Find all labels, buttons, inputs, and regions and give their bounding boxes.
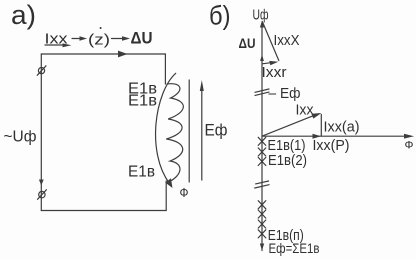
svg-text:Е1в: Е1в — [128, 163, 155, 180]
svg-text:ΔU: ΔU — [131, 30, 153, 48]
reactive component arrowhead Ixx(Р) — [313, 134, 322, 139]
turn tick × b1 — [258, 201, 266, 209]
svg-text:ΔU: ΔU — [239, 35, 256, 51]
bottom terminal — [39, 191, 45, 197]
svg-text:– Еф: – Еф — [269, 85, 301, 102]
svg-text:а): а) — [11, 0, 36, 30]
left wire — [40, 54, 42, 211]
ΔU arrowhead on axis — [260, 55, 264, 62]
wire to winding top — [164, 54, 166, 84]
axis break tick 1 — [255, 89, 269, 92]
arrow from impedance — [112, 38, 124, 40]
winding turns (5 bumps) — [166, 84, 183, 182]
svg-text:Ixx(Р): Ixx(Р) — [313, 137, 350, 154]
svg-text:Ixx(а): Ixx(а) — [324, 119, 360, 136]
svg-text:Е1в(2): Е1в(2) — [268, 152, 307, 169]
svg-text:Uф: Uф — [253, 7, 269, 24]
component arrow Ixxr — [262, 63, 271, 64]
svg-text:~Uф: ~Uф — [4, 129, 37, 146]
svg-text:Ф: Ф — [180, 185, 189, 200]
top wire — [41, 53, 165, 55]
wire from winding bottom — [165, 181, 167, 211]
core line — [188, 80, 190, 182]
turn tick × b3 — [258, 220, 266, 228]
turn tick × a2 — [258, 148, 266, 156]
arrow to impedance — [72, 38, 81, 40]
svg-text:Еф: Еф — [205, 121, 228, 140]
axis break tick 2 — [256, 181, 269, 184]
turn tick × b4 — [258, 230, 266, 238]
Ф axis — [262, 135, 407, 137]
EMF arrow Еф — [201, 90, 203, 180]
top terminal — [38, 68, 44, 74]
turn tick × b2 — [258, 210, 266, 218]
svg-text:Е1в: Е1в — [128, 93, 157, 110]
current arrowhead into bottom terminal — [39, 180, 44, 186]
active component line Ixx(а) — [320, 115, 322, 137]
svg-text:Еф=ΣЕ1в: Еф=ΣЕ1в — [269, 240, 320, 256]
turn tick × a1 — [258, 137, 266, 145]
svg-text:IxxX: IxxX — [274, 32, 300, 49]
sum EMF arrowhead (down) — [260, 244, 264, 251]
svg-text:Ixxr: Ixxr — [262, 64, 287, 81]
component line IxxX — [262, 22, 279, 61]
flux line Ф — [156, 73, 176, 183]
phasor Ixx — [262, 116, 313, 136]
svg-text:б): б) — [209, 1, 231, 31]
svg-text:Ф: Ф — [405, 140, 414, 152]
svg-text:Ixx: Ixx — [296, 102, 314, 119]
vertical axis Uф — [261, 25, 263, 251]
svg-text:(z): (z) — [88, 31, 110, 48]
turn tick × a3 — [258, 157, 266, 165]
phasor underline arrow under Ixx — [45, 44, 66, 46]
bottom wire — [41, 210, 166, 212]
current arrowhead on top wire — [118, 51, 128, 58]
